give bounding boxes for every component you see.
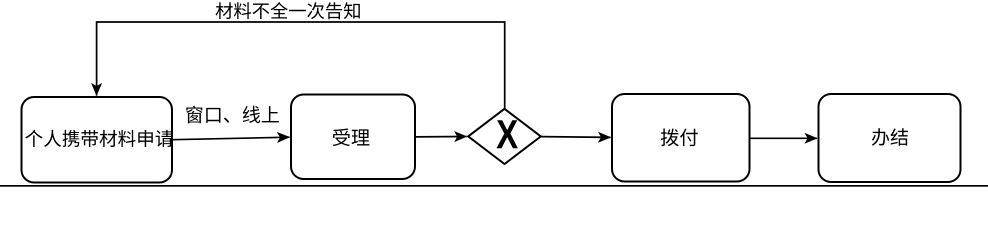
wire: arrow box1 -> box2 bbox=[172, 137, 290, 140]
label: 受理 bbox=[333, 128, 370, 146]
gateway diamond X (exclusive gateway) bbox=[468, 109, 541, 164]
process box: 个人携带材料申请 (apply with materials in person) bbox=[22, 97, 173, 183]
process box: 拨付 (disburse) bbox=[612, 94, 750, 182]
label: 材料不全一次告知 (incomplete materials notified at once) bbox=[216, 2, 360, 19]
label: 个人携带材料申请 bbox=[25, 130, 172, 147]
label: 拨付 bbox=[661, 128, 698, 146]
process box: 受理 (accept) bbox=[291, 95, 415, 180]
process box: 办结 (complete) bbox=[819, 94, 961, 182]
wire: arrow gateway -> box3 bbox=[541, 136, 611, 139]
gateway X symbol bbox=[496, 120, 517, 148]
label: 办结 bbox=[872, 128, 908, 146]
wire: arrow box2 -> gateway bbox=[415, 136, 467, 138]
wire: arrow box3 -> box4 bbox=[750, 137, 818, 139]
wire: feedback line gateway top -> up -> left -> down into box1 bbox=[97, 22, 505, 109]
baseline rule at bottom bbox=[0, 185, 988, 187]
label: 窗口、线上 (window / online) bbox=[186, 106, 279, 124]
